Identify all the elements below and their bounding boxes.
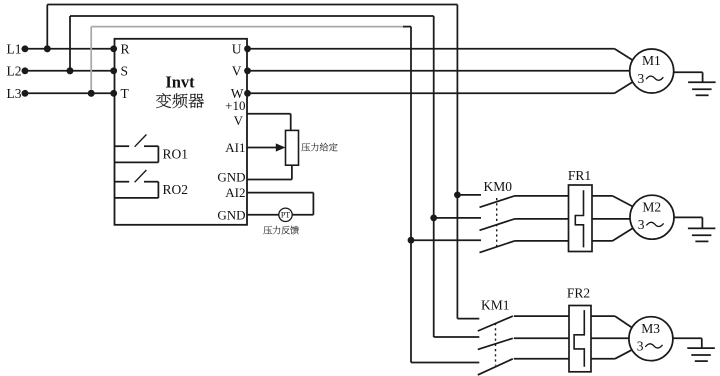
wire L1 bypass bus down [456, 5, 458, 319]
svg-text:3: 3 [638, 71, 645, 86]
wire L2 bypass bus down [433, 16, 435, 337]
node S terminal [110, 67, 117, 74]
wire potentiometer bottom to GND [291, 165, 293, 179]
wire AI1 wiper [247, 147, 277, 149]
label 压力反馈 [263, 226, 272, 234]
svg-text:AI1: AI1 [225, 140, 245, 155]
node L1 tap junction [44, 45, 51, 52]
svg-text:FR1: FR1 [568, 168, 591, 183]
wire FR1 to M2 [592, 195, 613, 197]
label 压力给定 [301, 143, 310, 151]
svg-text:V: V [234, 113, 244, 128]
pressure transducer PT 压力反馈 [279, 208, 292, 221]
ground [688, 81, 716, 83]
wire FR2 to M3 [591, 315, 615, 317]
svg-text:FR2: FR2 [567, 285, 590, 300]
node L1 terminal dot [22, 45, 29, 52]
wire U to M1 [248, 48, 615, 50]
node KM0 tap L2 [430, 215, 437, 222]
wire [673, 337, 702, 339]
contactor KM0 pole 2 [434, 217, 481, 219]
thermal overload FR1 [569, 185, 593, 252]
thermal overload FR2 [569, 306, 591, 372]
wire L2 bypass riser [69, 16, 71, 71]
relay contact RO2 [115, 181, 130, 183]
svg-text:GND: GND [217, 169, 245, 184]
motor M2 [630, 195, 674, 239]
wire PT to GND [247, 214, 279, 216]
svg-text:U: U [232, 42, 242, 57]
node KM0 tap L1 [454, 192, 461, 199]
svg-text:L2: L2 [7, 64, 22, 79]
svg-text:R: R [121, 42, 130, 57]
node V terminal [244, 67, 251, 74]
node L3 tap dot [88, 90, 95, 97]
ground [688, 227, 716, 229]
wire L3 to terminal [22, 92, 115, 94]
KM1 linkage (dotted) [495, 323, 497, 366]
label 变频器 [156, 93, 171, 108]
relay contact RO1 [115, 145, 130, 147]
contactor KM1 pole 3 [478, 359, 513, 375]
node L2 tap junction [67, 67, 74, 74]
node R terminal [110, 45, 117, 52]
node L1 tap dot [44, 45, 51, 52]
svg-text:+10: +10 [225, 98, 245, 113]
node L2 terminal dot [22, 67, 29, 74]
svg-text:M3: M3 [641, 321, 660, 336]
svg-text:V: V [232, 64, 242, 79]
svg-text:L3: L3 [7, 86, 22, 101]
wire V to M1 [248, 70, 630, 72]
inverter box U1 Invt [115, 39, 248, 225]
wire KM1 feed 1 [457, 318, 479, 320]
wire L1 bypass riser [46, 5, 48, 49]
svg-text:3: 3 [637, 339, 644, 354]
node KM0 tap L3 [408, 237, 415, 244]
node W terminal [244, 90, 251, 97]
svg-text:Invt: Invt [165, 73, 195, 92]
svg-text:M2: M2 [642, 199, 661, 214]
wire L3 bypass corner [403, 26, 411, 28]
node L3 tap junction [88, 90, 95, 97]
motor M1 [630, 49, 674, 93]
KM0 linkage (dotted) [496, 198, 498, 247]
node L2 tap dot [67, 67, 74, 74]
svg-text:AI2: AI2 [225, 185, 245, 200]
wire L2 to terminal [22, 70, 115, 72]
svg-text:3: 3 [638, 217, 645, 232]
motor M3 [629, 317, 673, 361]
svg-text:RO1: RO1 [163, 146, 189, 161]
contactor KM1 pole 2 [478, 338, 513, 349]
svg-text:PT: PT [281, 211, 290, 220]
svg-text:RO2: RO2 [163, 182, 189, 197]
ground [687, 347, 715, 349]
wire [674, 71, 703, 73]
svg-text:GND: GND [217, 207, 245, 222]
contactor KM1 pole 1 [478, 316, 513, 331]
node L3 terminal dot [22, 90, 29, 97]
svg-text:T: T [121, 86, 130, 101]
svg-text:S: S [121, 64, 129, 79]
potentiometer 压力给定 [286, 130, 299, 165]
wire [674, 216, 703, 218]
svg-text:M1: M1 [642, 53, 661, 68]
svg-text:L1: L1 [7, 42, 22, 57]
wire +10V to potentiometer [247, 113, 291, 115]
svg-text:KM1: KM1 [481, 297, 510, 312]
wire L1 to terminal [22, 48, 115, 50]
svg-text:KM0: KM0 [484, 179, 513, 194]
node T terminal [110, 90, 117, 97]
node U terminal [244, 45, 251, 52]
wire W to M1 [248, 92, 615, 94]
contactor KM0 pole 1 [457, 194, 481, 196]
wire KM1 feed 3 [411, 362, 479, 364]
wire L3 bypass riser (gray) [90, 27, 92, 94]
wire KM1 feed 2 [434, 336, 480, 338]
contactor KM0 pole 3 [411, 239, 481, 241]
wire AI2 loop [247, 192, 313, 194]
